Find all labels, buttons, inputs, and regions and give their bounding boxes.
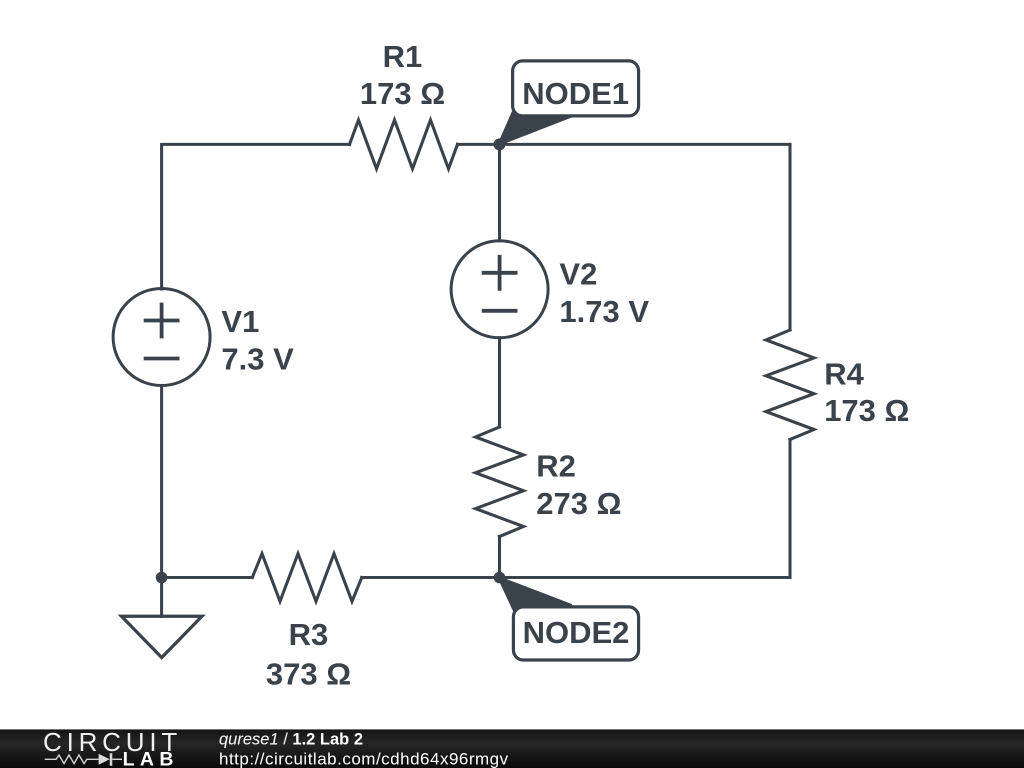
resistor R4 <box>766 330 814 440</box>
wire bottom-right from node2 to right branch <box>500 576 791 579</box>
svg-text:qurese1 / 1.2 Lab 2: qurese1 / 1.2 Lab 2 <box>219 731 363 749</box>
V2 minus sign <box>484 309 516 313</box>
NODE2 callout tail <box>499 577 571 612</box>
footer bar <box>0 729 1024 768</box>
wire right branch lower <box>788 440 791 578</box>
resistor R1 <box>350 120 458 169</box>
svg-text:LAB: LAB <box>123 749 179 768</box>
svg-text:7.3 V: 7.3 V <box>221 342 294 377</box>
svg-text:173 Ω: 173 Ω <box>824 393 909 428</box>
NODE2 callout box <box>513 607 638 660</box>
voltage source V2 circle <box>451 241 548 338</box>
wire bottom-left from V1 ground junction to R3 <box>162 576 253 579</box>
wire top-left from V1 top to R1 left <box>162 144 350 289</box>
svg-text:R4: R4 <box>824 357 864 392</box>
svg-text:R3: R3 <box>289 617 329 652</box>
wire from V2 bottom to R2 <box>498 338 501 427</box>
ground symbol triangle <box>122 616 203 657</box>
wire middle from node1 down to V2 <box>498 144 501 240</box>
node NODE1 junction dot <box>494 138 506 150</box>
CircuitLab logo schematic squiggle <box>45 753 122 766</box>
wire right branch upper <box>788 144 791 330</box>
V2 plus sign <box>484 257 516 289</box>
NODE1 callout box <box>513 61 639 116</box>
svg-text:R1: R1 <box>383 39 423 74</box>
resistor R2 <box>476 427 524 537</box>
CircuitLab logo diode triangle <box>99 754 110 765</box>
ground junction dot <box>156 572 168 584</box>
svg-text:http://circuitlab.com/cdhd64x9: http://circuitlab.com/cdhd64x96rmgv <box>219 749 509 768</box>
svg-text:R2: R2 <box>536 449 576 484</box>
ground stub wire <box>160 578 163 617</box>
wire from R2 bottom to node2 <box>498 537 501 578</box>
svg-text:V2: V2 <box>559 257 597 292</box>
node NODE2 junction dot <box>494 572 506 584</box>
svg-text:373 Ω: 373 Ω <box>266 657 351 692</box>
wire V1 bottom to ground junction <box>160 386 163 578</box>
V1 minus sign <box>146 357 178 361</box>
svg-text:NODE2: NODE2 <box>523 615 630 650</box>
wire from R3 to node2 <box>362 576 500 579</box>
wire top-right from R1 to right branch <box>458 143 791 146</box>
V1 plus sign <box>146 305 178 337</box>
NODE1 callout tail <box>499 109 571 145</box>
resistor R3 <box>252 554 361 602</box>
svg-text:173 Ω: 173 Ω <box>360 76 445 111</box>
svg-text:V1: V1 <box>221 304 259 339</box>
voltage source V1 circle <box>113 289 210 386</box>
svg-text:NODE1: NODE1 <box>522 76 629 111</box>
svg-text:1.73 V: 1.73 V <box>559 294 649 329</box>
svg-text:273 Ω: 273 Ω <box>536 486 621 521</box>
